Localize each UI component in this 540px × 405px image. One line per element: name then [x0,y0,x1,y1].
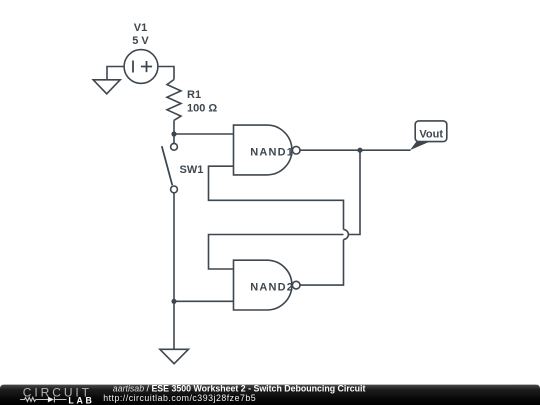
NAND1 output bubble [292,146,300,154]
wire SW1 to bottom rail [173,193,175,349]
svg-text:NAND2: NAND2 [250,282,294,294]
svg-text:V1: V1 [134,22,147,34]
Vout flag pointer [410,141,430,150]
wire R1 to node A [173,120,175,134]
wire node A to NAND1 input 1 [174,133,234,135]
wire V1 to R1 [158,67,174,80]
V1 value label [132,22,149,47]
node C junction on output wire [357,148,362,153]
svg-text:SW1: SW1 [180,164,204,176]
svg-text:R1: R1 [187,89,201,101]
ground GND1 (top-left) [93,67,124,94]
svg-text:100 Ω: 100 Ω [187,103,217,115]
resistor R1 [167,80,181,121]
node A junction [171,131,176,136]
NAND2 output bubble [292,281,300,289]
wire NAND1 output to Vout [300,149,411,151]
voltage source V1 [124,50,158,84]
wire node A to SW1 [173,134,175,143]
wire NAND2 output to NAND1 input 2 (feedback) [209,166,344,285]
R1 value label [187,89,217,114]
node B junction [171,299,176,304]
wire hop (crossover) [344,230,349,240]
wire node B to NAND2 input 2 [174,300,234,302]
svg-text:NAND1: NAND1 [250,146,294,158]
wire node C to NAND2 input 1 (feedback) [209,150,361,269]
NAND gate NAND1 body [234,125,292,175]
svg-text:LAB: LAB [68,395,92,405]
switch SW1 [162,143,178,192]
svg-text:Vout: Vout [419,128,443,140]
Vout flag box [415,121,447,142]
svg-text:5 V: 5 V [132,35,149,47]
CircuitLab logo squiggle (wire-resistor-diode) [20,397,66,403]
NAND gate NAND2 body [234,260,292,310]
ground GND2 (bottom) [160,349,189,363]
svg-text:http://circuitlab.com/c393j28f: http://circuitlab.com/c393j28fze7b5 [103,393,256,403]
